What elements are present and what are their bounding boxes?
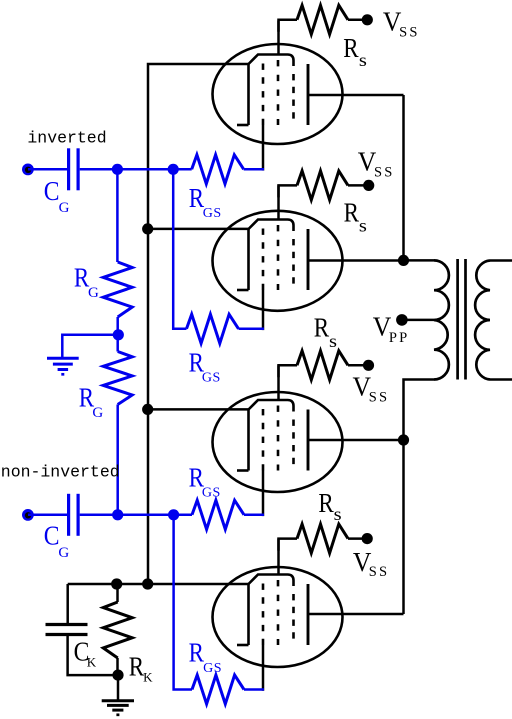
label R_s 1 [343, 33, 367, 70]
svg-text:SS: SS [399, 25, 420, 41]
label R_GS 1 [189, 183, 222, 221]
wire Rs1 right lead [348, 19, 367, 22]
node inverted input terminal [22, 164, 34, 176]
label C_G non-inverted [44, 520, 70, 561]
wire V3 cathode [148, 408, 249, 411]
node inverted RGS junction [168, 164, 179, 175]
svg-text:GS: GS [203, 661, 222, 676]
node V_SS terminal 1 [362, 14, 373, 25]
resistor R_G upper [103, 262, 132, 317]
wire V3 screen lead [277, 365, 280, 400]
svg-text:G: G [88, 285, 99, 301]
svg-text:GS: GS [202, 371, 221, 386]
label R_s 2 [344, 198, 368, 236]
wire RGS1 to V1 grid [244, 168, 264, 171]
wire secondary bottom lead [490, 378, 512, 381]
wire RGS4 to V4 grid [244, 688, 264, 691]
wire V4 grid lead [262, 645, 265, 691]
svg-text:R: R [343, 33, 358, 63]
wire V2 screen lead [277, 185, 280, 219]
svg-text:C: C [44, 520, 60, 550]
node V_SS terminal 2 [363, 180, 374, 191]
tube V1 envelope and electrodes [213, 44, 343, 144]
label C_G inverted [44, 176, 70, 216]
node V_SS terminal 4 [362, 533, 373, 544]
wire Rs4 left lead [279, 539, 298, 551]
node non-inverted RG junction [112, 509, 123, 520]
svg-text:non-inverted: non-inverted [1, 462, 120, 481]
wire plate bus lower [404, 380, 435, 615]
svg-text:PP: PP [389, 330, 410, 346]
label V_SS 4 [353, 547, 389, 580]
svg-text:SS: SS [374, 165, 395, 181]
wire V1 screen lead [277, 21, 280, 55]
svg-text:K: K [143, 669, 153, 684]
wire V4 cathode [68, 583, 249, 586]
node non-inverted input terminal [22, 509, 34, 521]
wire V1 plate lead [308, 94, 404, 97]
node V_SS terminal 3 [363, 360, 374, 371]
node inverted RG junction [112, 164, 123, 175]
node primary top junction [398, 255, 409, 266]
transformer T1 core [458, 259, 466, 380]
wire V1 grid lead [262, 125, 265, 171]
wire CK branch top [66, 584, 69, 623]
svg-text:GS: GS [202, 485, 221, 500]
wire RGS2 to V2 grid [239, 328, 265, 331]
wire Rs3 right lead [348, 364, 369, 367]
label R_s 4 [318, 488, 342, 524]
svg-text:s: s [329, 331, 337, 351]
tube V3 envelope and electrodes [213, 392, 343, 492]
resistor R_s 4 [297, 524, 348, 553]
svg-text:C: C [44, 176, 60, 206]
wire V2 plate lead [308, 259, 404, 262]
transformer T1 primary winding [434, 260, 449, 379]
wire V2 grid lead [262, 290, 265, 330]
wire primary top lead [404, 259, 435, 262]
node RK top [111, 578, 122, 589]
wire RGS3 to V3 grid [244, 514, 264, 517]
ground (signal, blue) [47, 358, 79, 374]
svg-text:G: G [59, 200, 70, 216]
svg-text:GS: GS [203, 206, 222, 221]
wire RG lower to non-inverted node [116, 405, 119, 515]
node RG midpoint [113, 329, 124, 340]
svg-text:R: R [314, 313, 329, 343]
label R_GS 2 [189, 348, 221, 386]
node V_PP terminal [396, 314, 408, 326]
svg-text:G: G [58, 545, 69, 561]
label V_SS 2 [358, 146, 395, 180]
label V_PP [373, 312, 410, 346]
capacitor C_G non-inverted [69, 494, 79, 536]
wire non-inverted bus to RGS4 [174, 515, 192, 690]
wire plate bus upper [402, 95, 405, 260]
svg-text:s: s [359, 50, 367, 70]
wire Rs3 left lead [279, 365, 298, 377]
resistor R_G lower [103, 352, 132, 405]
tube V4 envelope and electrodes [213, 567, 343, 667]
wire V4 plate lead [308, 613, 404, 616]
wire Rs1 left lead [279, 20, 298, 32]
svg-text:R: R [189, 183, 204, 213]
wire Rs2 right lead [348, 184, 369, 187]
transformer T1 secondary winding [475, 261, 490, 380]
capacitor C_G inverted [69, 148, 79, 190]
node RK bottom junction [112, 670, 123, 681]
resistor R_GS 1 [192, 155, 244, 184]
label R_K [129, 652, 153, 685]
wire RK bottom lead [116, 658, 119, 675]
label V_SS 3 [353, 372, 390, 406]
node V3 cathode junction [142, 404, 153, 415]
wire V3 plate lead [308, 439, 404, 442]
wire RG junction lead [116, 317, 119, 335]
wire Rs2 left lead [279, 185, 298, 197]
svg-text:SS: SS [369, 564, 390, 580]
ground (cathode) [102, 701, 134, 715]
label R_GS 4 [189, 638, 222, 677]
resistor R_K [103, 602, 132, 658]
wire V2 cathode [148, 228, 249, 231]
svg-text:s: s [359, 215, 367, 235]
label V_SS 1 [383, 6, 420, 40]
wire RG midpoint to lower RG [116, 335, 119, 352]
wire to ground [117, 675, 120, 700]
label R_G lower [79, 383, 104, 421]
wire non-inverted grid line [80, 514, 192, 517]
label C_K [74, 637, 97, 670]
svg-text:G: G [92, 405, 103, 421]
resistor R_s 3 [297, 351, 348, 380]
wire V3 grid lead [262, 471, 265, 517]
svg-text:inverted: inverted [27, 129, 106, 148]
tube V2 envelope and electrodes [213, 211, 343, 311]
svg-text:R: R [129, 652, 144, 682]
capacitor C_K [46, 625, 88, 635]
svg-text:s: s [334, 504, 342, 524]
resistor R_GS 3 [192, 500, 244, 529]
resistor R_s 1 [297, 5, 348, 34]
wire RK top lead [116, 584, 119, 602]
svg-text:R: R [189, 638, 204, 668]
label R_GS 3 [189, 463, 221, 501]
resistor R_GS 4 [192, 675, 244, 704]
wire ground tap [62, 335, 118, 357]
wire non-inverted input [28, 514, 67, 517]
wire inverted to RG [116, 169, 119, 262]
node primary bottom junction [398, 434, 409, 445]
node V2 cathode junction [142, 223, 153, 234]
wire CK branch bottom [68, 636, 118, 675]
wire center tap [402, 319, 434, 322]
svg-text:SS: SS [369, 390, 390, 406]
label R_G upper [74, 263, 99, 302]
wire Rs4 right lead [348, 537, 367, 540]
label R_s 3 [314, 313, 337, 351]
svg-text:R: R [74, 263, 89, 293]
svg-text:R: R [318, 488, 333, 518]
wire inverted bus to RGS2 [173, 169, 186, 328]
node non-inverted RGS junction [168, 509, 179, 520]
svg-text:R: R [344, 198, 359, 228]
resistor R_s 2 [297, 171, 348, 200]
wire inverted grid line [80, 168, 192, 171]
resistor R_GS 2 [187, 314, 239, 343]
svg-text:K: K [87, 655, 97, 670]
wire secondary top lead [490, 259, 512, 262]
wire inverted input [28, 168, 67, 171]
wire V4 screen lead [277, 539, 280, 575]
node cathode bus bottom junction [142, 578, 153, 589]
wire cathode bus vertical [148, 64, 249, 584]
